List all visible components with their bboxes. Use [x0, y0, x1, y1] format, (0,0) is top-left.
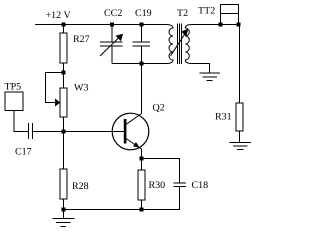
svg-text:CC2: CC2	[104, 8, 122, 19]
wire collector	[141, 64, 143, 114]
node C19 tap junction	[140, 23, 144, 27]
svg-text:C19: C19	[135, 8, 152, 19]
svg-text:R31: R31	[215, 112, 232, 123]
wire W3 wiper loop	[46, 73, 64, 103]
svg-text:TP5: TP5	[5, 82, 22, 93]
svg-text:W3: W3	[74, 83, 88, 94]
resistor R31	[215, 103, 243, 143]
svg-text:R27: R27	[73, 34, 90, 45]
wire +12V top rail	[35, 24, 166, 26]
capacitor C18	[174, 180, 209, 210]
potentiometer W3	[55, 73, 88, 132]
node TT2 right pin junction	[237, 23, 241, 27]
wire base wire	[33, 131, 126, 133]
svg-text:TT2: TT2	[198, 6, 215, 17]
capacitor C19	[133, 8, 152, 64]
ground at R31	[230, 143, 252, 150]
node emitter junction	[140, 157, 144, 161]
ground at T2 secondary	[200, 73, 221, 81]
wire TP5 lead	[14, 111, 28, 132]
wire secondary top lead	[192, 24, 240, 26]
connector TT2	[198, 5, 239, 25]
node bottom-middle junction	[140, 208, 144, 212]
resistor R30	[138, 159, 165, 210]
wire emitter	[141, 149, 143, 159]
transistor Q2	[112, 103, 165, 150]
wire secondary bottom lead	[192, 64, 210, 74]
capacitor C17	[15, 123, 33, 158]
resistor R28	[60, 132, 89, 210]
node CC2 tap junction	[110, 23, 114, 27]
svg-text:Q2: Q2	[153, 103, 165, 114]
svg-text:T2: T2	[177, 8, 188, 19]
wire bottom rail	[64, 209, 181, 211]
node base junction	[62, 130, 66, 134]
node TT2 left pin junction	[219, 23, 223, 27]
wire tank bottom	[112, 63, 166, 65]
variable capacitor CC2	[100, 8, 123, 64]
test point TP5	[5, 82, 24, 111]
wire emitter to C18	[142, 159, 180, 184]
svg-text:+12 V: +12 V	[46, 10, 72, 21]
node W3 wiper tap junction	[62, 71, 66, 75]
resistor R27	[60, 25, 90, 73]
svg-text:R28: R28	[72, 181, 89, 192]
node collector tank junction	[140, 62, 144, 66]
node +12V tap junction	[62, 23, 66, 27]
svg-text:C18: C18	[192, 180, 209, 191]
transformer T2	[166, 8, 192, 64]
ground main	[53, 210, 75, 227]
svg-text:R30: R30	[149, 180, 166, 191]
svg-text:C17: C17	[15, 147, 32, 158]
node bottom-left junction	[62, 208, 66, 212]
wire R31 drop	[239, 25, 241, 104]
